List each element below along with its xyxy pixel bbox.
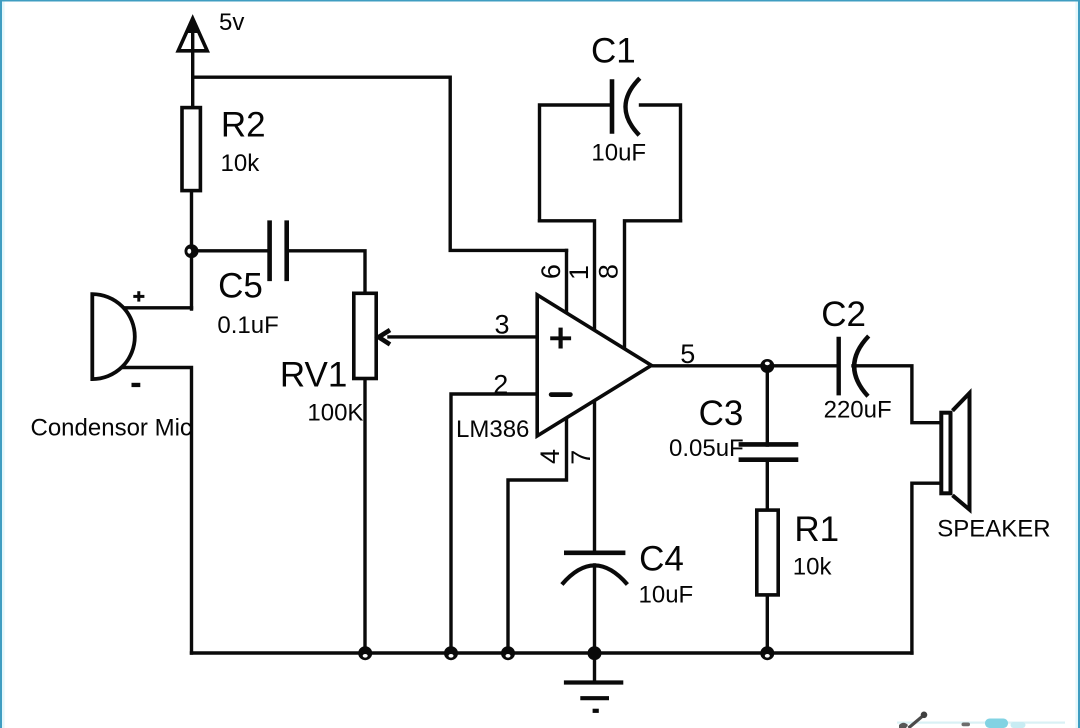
svg-text:C3: C3 [699, 394, 744, 433]
resistor R1 [757, 510, 778, 595]
wire: R2 bottom to junction A [190, 191, 193, 309]
capacitor C1 (polarized) [612, 78, 640, 135]
ground symbol [564, 653, 623, 711]
wire: pin 2 to ground bus [451, 394, 537, 653]
wire: C1 loop right side to pin 8 [641, 105, 681, 221]
op-amp minus input marker [551, 392, 570, 397]
speaker [941, 393, 969, 510]
wire: pin 5 output to C2 [650, 364, 837, 367]
RV1 wiper arrowhead [379, 330, 390, 344]
wire: R1 bottom to bus [766, 595, 769, 653]
svg-text:100K: 100K [307, 400, 363, 427]
svg-text:1: 1 [564, 265, 594, 280]
wire: output node down to C3 [766, 366, 769, 445]
wire: C1 bottom left segment [540, 221, 595, 331]
svg-text:C4: C4 [639, 539, 684, 578]
junction dot R1/bus [760, 646, 774, 660]
junction dot RV1/bus [358, 646, 372, 660]
svg-text:10uF: 10uF [639, 582, 694, 609]
wire: pin 3 to RV1 wiper [389, 335, 537, 338]
svg-text:6: 6 [536, 264, 566, 279]
svg-text:7: 7 [566, 450, 596, 465]
wire: ground bus [192, 651, 912, 654]
junction dot ground/bus (solid) [588, 646, 602, 660]
output node junction dot [760, 359, 774, 373]
svg-text:LM386: LM386 [456, 416, 529, 443]
potentiometer RV1 [354, 293, 376, 378]
power arrow 5v [178, 16, 207, 51]
label - (mic) [132, 383, 141, 387]
svg-text:10uF: 10uF [591, 140, 646, 167]
frame right border [1078, 0, 1080, 728]
svg-text:220uF: 220uF [824, 396, 892, 423]
capacitor C5 [270, 220, 287, 281]
svg-text:RV1: RV1 [280, 356, 347, 395]
capacitor C2 (polarized) [839, 336, 869, 396]
capacitor C4 (polarized) [562, 553, 628, 585]
svg-text:R2: R2 [221, 105, 266, 144]
wire: mic minus terminal down to bus [122, 368, 192, 654]
svg-text:C5: C5 [218, 267, 263, 306]
svg-text:5v: 5v [219, 9, 244, 36]
svg-text:10k: 10k [221, 150, 261, 177]
op-amp plus input marker [550, 328, 571, 349]
wire: C1 loop left side to pin 1 [540, 105, 611, 221]
wire: top rail from power to right [193, 77, 567, 250]
wire: pin 4 to ground bus [508, 417, 567, 653]
op-amp U1 LM386 [537, 295, 651, 436]
svg-text:C1: C1 [591, 31, 636, 70]
wire: C3 to R1 [766, 460, 769, 510]
capacitor C3 [739, 444, 799, 459]
svg-text:10k: 10k [793, 554, 833, 581]
wire: C5 right plate to RV1 top [288, 251, 365, 292]
wire: C2 right to speaker top [853, 366, 939, 423]
svg-text:4: 4 [535, 449, 565, 464]
wire: pin 7 down to C4 [593, 399, 596, 553]
frame left border [0, 0, 2, 728]
junction dot pin2/bus [444, 646, 458, 660]
svg-text:Condensor Mic: Condensor Mic [31, 414, 192, 441]
svg-text:3: 3 [495, 309, 510, 339]
svg-text:5: 5 [680, 339, 695, 369]
wire: C1 bottom right segment / pin 8 drop [625, 221, 681, 349]
svg-text:SPEAKER: SPEAKER [937, 515, 1050, 542]
wire: pin 6 drop to op-amp [565, 250, 568, 314]
node A junction dot [185, 244, 199, 258]
svg-text:R1: R1 [794, 510, 839, 549]
svg-text:0.1uF: 0.1uF [217, 312, 278, 339]
wire: junction A to C5 left plate [192, 249, 269, 252]
svg-text:0.05uF: 0.05uF [669, 435, 744, 462]
svg-text:8: 8 [594, 264, 624, 279]
svg-text:C2: C2 [821, 295, 866, 334]
label + (mic) [133, 291, 144, 301]
svg-text:2: 2 [493, 369, 508, 399]
wire: 5v arrow stem down to R2 [191, 30, 194, 107]
wire: speaker bottom to bus [912, 483, 939, 653]
resistor R2 [182, 108, 200, 191]
wire: C4 bottom to bus [593, 565, 596, 653]
frame top border [0, 0, 1080, 2]
condenser microphone [92, 294, 135, 379]
watermark fragment bottom right [897, 712, 1065, 728]
wire: mic plus terminal [123, 306, 192, 309]
junction dot pin4/bus [501, 646, 515, 660]
wire: RV1 bottom to bus [363, 379, 366, 653]
